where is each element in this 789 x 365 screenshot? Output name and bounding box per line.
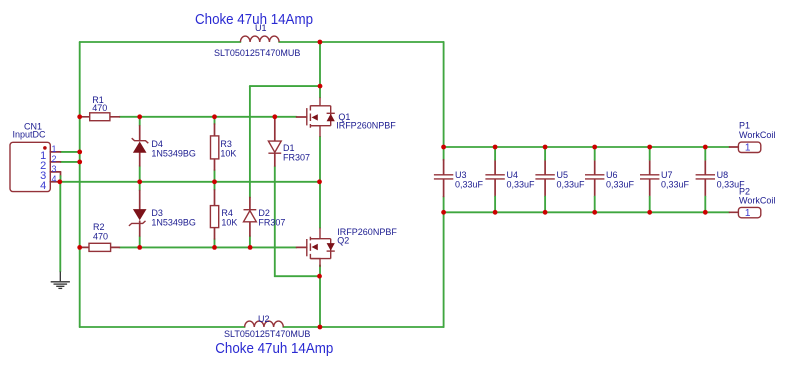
- svg-text:Q2: Q2: [337, 236, 349, 246]
- wire cross link bottom horizontal: [275, 275, 320, 277]
- junction R4 bottom gate row 2: [212, 245, 217, 250]
- junction D4-D3 mid rail: [137, 179, 142, 184]
- wire right vertical (top rail down to cap bank): [443, 42, 445, 160]
- junction U7 bottom: [647, 210, 652, 215]
- junction R2 left / left rail gate row 2: [77, 245, 82, 250]
- junction U5 bottom: [543, 210, 548, 215]
- wire D1 column down to bend: [274, 166, 276, 276]
- mosfet Q2: [297, 228, 335, 267]
- junction D2 anode gate row 2: [248, 245, 253, 250]
- svg-text:0,33uF: 0,33uF: [606, 180, 635, 190]
- svg-text:U5: U5: [557, 170, 569, 180]
- wire capacitor bottom rail: [444, 211, 730, 213]
- diode D1: [268, 117, 310, 166]
- junction U3 top: [441, 145, 446, 150]
- wire pin3 bend down: [60, 172, 62, 176]
- choke U2: [224, 314, 310, 339]
- svg-text:U3: U3: [455, 170, 467, 180]
- svg-text:10K: 10K: [220, 148, 236, 158]
- svg-text:1: 1: [745, 143, 751, 154]
- svg-text:U7: U7: [661, 170, 673, 180]
- resistor R1: [80, 95, 120, 121]
- svg-text:P1: P1: [739, 121, 750, 131]
- svg-text:U6: U6: [606, 170, 618, 180]
- wire gate row 1: [119, 116, 296, 118]
- svg-text:InputDC: InputDC: [13, 130, 47, 140]
- svg-text:4: 4: [40, 180, 46, 192]
- junction cross-link at Q1 drain column: [318, 84, 323, 89]
- junction CN1 pin 1 to left rail: [77, 150, 82, 155]
- junction U6 bottom: [592, 210, 597, 215]
- svg-text:WorkCoil: WorkCoil: [739, 196, 775, 206]
- svg-text:1: 1: [52, 144, 57, 154]
- connector P2: [730, 187, 776, 220]
- wire mid rail (pin4 to mosfet mid node): [60, 181, 320, 183]
- wire D3 stubs: [139, 182, 141, 248]
- connector CN1: [10, 122, 61, 192]
- svg-text:FR307: FR307: [283, 152, 310, 162]
- junction bottom rail / Q2 source: [318, 325, 323, 330]
- svg-text:U4: U4: [507, 170, 519, 180]
- wire Q1 source to mid node: [319, 137, 321, 228]
- junction D4 cathode gate row 1: [137, 114, 142, 119]
- wire left vertical rail: [79, 42, 81, 327]
- diode D2: [244, 198, 286, 237]
- mosfet Q1: [297, 98, 397, 137]
- junction U4 bottom: [493, 210, 498, 215]
- junction Q1 source / Q2 drain mid node: [317, 179, 322, 184]
- svg-text:U8: U8: [717, 170, 729, 180]
- wire R3 stubs: [214, 117, 216, 182]
- wire R4 stubs: [214, 182, 216, 248]
- resistor R3: [211, 124, 237, 170]
- capacitor U8: [696, 147, 746, 212]
- wire pin1 to left rail: [61, 151, 80, 153]
- wire D4 stubs: [139, 117, 141, 182]
- wire top rail left of choke U1: [80, 41, 241, 43]
- wire gate row 2: [119, 246, 296, 248]
- wire capacitor top rail: [444, 146, 730, 148]
- wire right vertical (cap bank down to bottom rail): [443, 197, 445, 328]
- junction U3 bottom: [441, 210, 446, 215]
- wire pin2 to left rail: [61, 161, 80, 163]
- capacitor U3: [434, 160, 484, 197]
- junction R3 top gate row 1: [212, 114, 217, 119]
- junction U6 top: [592, 145, 597, 150]
- wire pin3 bend green part: [60, 176, 62, 182]
- svg-text:WorkCoil: WorkCoil: [739, 130, 775, 140]
- pin 1 stub: [50, 151, 60, 153]
- ground: [51, 272, 70, 289]
- pin 4 stub: [50, 181, 60, 183]
- svg-text:1N5349BG: 1N5349BG: [151, 148, 196, 158]
- wire D2 bottom stub: [249, 236, 251, 247]
- junction D3 cathode gate row 2: [137, 245, 142, 250]
- junction top rail / Q1 drain: [318, 40, 323, 45]
- junction CN1 pin 4 / ground node: [57, 179, 62, 184]
- svg-text:0,33uF: 0,33uF: [557, 180, 586, 190]
- svg-text:470: 470: [92, 103, 107, 113]
- capacitor U4: [485, 147, 535, 212]
- connector P1: [730, 121, 776, 154]
- svg-text:0,33uF: 0,33uF: [507, 180, 536, 190]
- svg-text:FR307: FR307: [258, 217, 285, 227]
- svg-text:4: 4: [52, 174, 57, 184]
- svg-text:0,33uF: 0,33uF: [661, 180, 690, 190]
- svg-text:U2: U2: [258, 314, 270, 324]
- capacitor U6: [585, 147, 635, 212]
- svg-text:Choke 47uh 14Amp: Choke 47uh 14Amp: [215, 340, 333, 357]
- wire ground drop: [59, 182, 61, 272]
- wire Q1 drain column from top rail: [319, 42, 321, 98]
- zener diode D4: [132, 126, 196, 166]
- junction R3-R4 mid rail: [212, 179, 217, 184]
- junction U8 top: [703, 145, 708, 150]
- svg-text:SLT050125T470MUB: SLT050125T470MUB: [214, 48, 300, 58]
- wire bottom rail right of choke U2: [283, 326, 443, 328]
- junction U8 bottom: [703, 210, 708, 215]
- svg-text:0,33uF: 0,33uF: [455, 180, 484, 190]
- junction cross-link at Q2 source column: [317, 274, 322, 279]
- svg-text:IRFP260NPBF: IRFP260NPBF: [336, 121, 396, 131]
- wire bottom rail left of choke U2: [80, 326, 245, 328]
- svg-text:3: 3: [52, 164, 57, 174]
- wire top rail right of choke U1: [279, 41, 444, 43]
- resistor R2: [80, 222, 120, 251]
- pin 3 stub: [50, 171, 60, 173]
- junction D1 anode gate row 1: [272, 114, 277, 119]
- svg-text:2: 2: [52, 154, 57, 164]
- zener diode D3: [129, 191, 196, 237]
- junction U4 top: [493, 145, 498, 150]
- svg-text:470: 470: [93, 232, 108, 242]
- svg-text:1: 1: [745, 208, 751, 219]
- capacitor U7: [640, 147, 690, 212]
- capacitor U5: [535, 147, 585, 212]
- resistor R4: [210, 190, 237, 239]
- svg-text:10K: 10K: [221, 217, 237, 227]
- junction U7 top: [647, 145, 652, 150]
- svg-text:Choke 47uh 14Amp: Choke 47uh 14Amp: [195, 11, 313, 28]
- svg-text:SLT050125T470MUB: SLT050125T470MUB: [224, 329, 310, 339]
- junction U5 top: [543, 145, 548, 150]
- wire cross link left column (to D2): [249, 86, 251, 197]
- wire Q2 source to bottom rail: [319, 265, 321, 327]
- wire cross link top horizontal: [250, 85, 320, 87]
- pin 2 stub: [50, 161, 60, 163]
- svg-text:1N5349BG: 1N5349BG: [151, 217, 196, 227]
- junction R1 right / left rail gate row 1: [77, 114, 82, 119]
- choke U1: [214, 23, 300, 58]
- junction CN1 pin 2 to left rail: [77, 160, 82, 165]
